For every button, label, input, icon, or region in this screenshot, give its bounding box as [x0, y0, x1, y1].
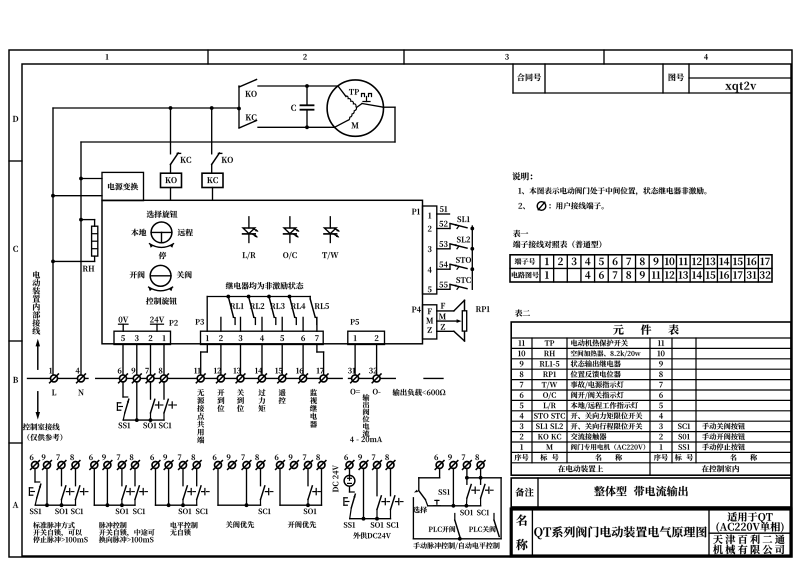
- pushbutton SO1 (local open): [143, 382, 163, 429]
- remark block: [511, 478, 791, 507]
- connector P3: [195, 319, 323, 345]
- node SL1 junction: [470, 227, 474, 231]
- connector P4: [412, 305, 437, 339]
- limit switch SL1: [437, 216, 470, 228]
- table 2: component list: [511, 322, 791, 475]
- wire motor return: [383, 107, 395, 142]
- terminal 4 (N): [76, 368, 86, 395]
- wires P2 to terminals: [123, 345, 164, 376]
- selector knob (local/remote/stop): [131, 211, 193, 260]
- terminal 32: [369, 368, 381, 395]
- contactor contact KO: [237, 80, 307, 128]
- node SC1 rail: [149, 418, 153, 422]
- terminal 12: [214, 368, 225, 383]
- terminal 1 (L): [49, 368, 58, 395]
- limit switch STO: [437, 257, 471, 269]
- relay contact RL5: [310, 297, 329, 325]
- connector P1: [412, 206, 437, 294]
- node power-box N tap: [79, 177, 83, 181]
- wire local common: [123, 382, 164, 420]
- relay contact bus: [207, 297, 310, 332]
- wire N phase bus: [81, 142, 395, 378]
- motor M1 (AC220V single phase): [327, 80, 383, 136]
- example group 5: open priority: [275, 454, 326, 528]
- relay contact KC (interlock): [171, 108, 192, 173]
- terminal 16: [296, 368, 307, 383]
- main control unit box: [102, 200, 423, 343]
- example group 1: standard pulse mode: [29, 454, 88, 543]
- label terminal functions: [197, 389, 445, 444]
- pushbutton SS1 (local): [117, 382, 130, 429]
- relay contact KO (interlock): [212, 108, 233, 173]
- example group 7: PLC control: [413, 454, 501, 549]
- terminal 17: [317, 368, 328, 383]
- wire motor feed lower: [307, 126, 335, 128]
- label control room side: [23, 392, 63, 441]
- example group 3: level control: [150, 454, 209, 535]
- table 1: terminal cross-reference: [510, 255, 772, 282]
- wire L phase bus: [53, 108, 239, 378]
- relay contact RL3: [267, 295, 285, 325]
- node power-box L tap: [51, 194, 55, 198]
- relay contact RL4: [288, 295, 306, 325]
- example group 4: close priority: [213, 454, 273, 528]
- potentiometer RP1 (position feedback): [437, 300, 490, 341]
- example group 6: external DC24V: [333, 454, 403, 539]
- terminal 9: [131, 368, 141, 383]
- label 24V: [150, 317, 164, 332]
- notes: [512, 172, 706, 210]
- node STO junction: [470, 267, 474, 271]
- relay contact RL1: [226, 295, 243, 325]
- resistor RH (space heater): [53, 220, 98, 272]
- terminal rail: [28, 377, 444, 379]
- label 0V: [119, 317, 129, 332]
- relay state note: [226, 282, 304, 289]
- connector P2: [114, 320, 178, 345]
- table 1 heading: [513, 230, 601, 248]
- node SO1 rail: [135, 418, 139, 422]
- LED L/R (local/remote lamp): [242, 217, 258, 259]
- limit switch SL2: [437, 237, 470, 249]
- limit switch common bus: [471, 226, 473, 289]
- terminal 8: [159, 368, 169, 383]
- wires P5 to terminals: [355, 345, 377, 376]
- limit switch STC: [437, 277, 471, 289]
- terminal 11: [194, 368, 205, 383]
- power supply box: [53, 172, 144, 200]
- wire relay pin stubs: [221, 317, 317, 331]
- node KC-coil tap: [210, 106, 214, 110]
- relay contact RL2: [247, 295, 265, 325]
- pushbutton SC1 (local close): [159, 382, 176, 429]
- wire motor feed upper: [307, 85, 338, 87]
- terminal 14: [255, 368, 266, 383]
- connector P5: [348, 319, 385, 344]
- node heater tap: [79, 218, 83, 222]
- node heater return: [51, 260, 55, 264]
- node KO-coil tap: [169, 106, 173, 110]
- LED O/C (open/close lamp): [283, 217, 299, 259]
- label internal wiring side: [32, 271, 40, 369]
- contactor coil KO: [161, 173, 182, 200]
- wires P3 to terminals: [201, 345, 324, 376]
- terminal 6: [118, 368, 128, 383]
- terminal 13: [234, 368, 245, 383]
- control knob (open/close): [130, 265, 192, 304]
- terminal 51: [437, 206, 450, 214]
- contactor coil KC: [202, 173, 223, 200]
- node SL2 junction: [470, 247, 474, 251]
- title block top-right (contract no. / drawing no.): [513, 64, 791, 93]
- title block (drawing name): [511, 509, 791, 556]
- LED T/W (trouble lamp): [322, 217, 340, 259]
- capacitor C: [291, 84, 313, 129]
- terminal 15: [275, 368, 286, 383]
- terminal 7: [145, 368, 155, 383]
- example group 2: pulse control: [89, 454, 155, 543]
- table 2 heading: [515, 309, 530, 316]
- contactor contact KC: [239, 114, 307, 128]
- terminal 31: [348, 368, 360, 395]
